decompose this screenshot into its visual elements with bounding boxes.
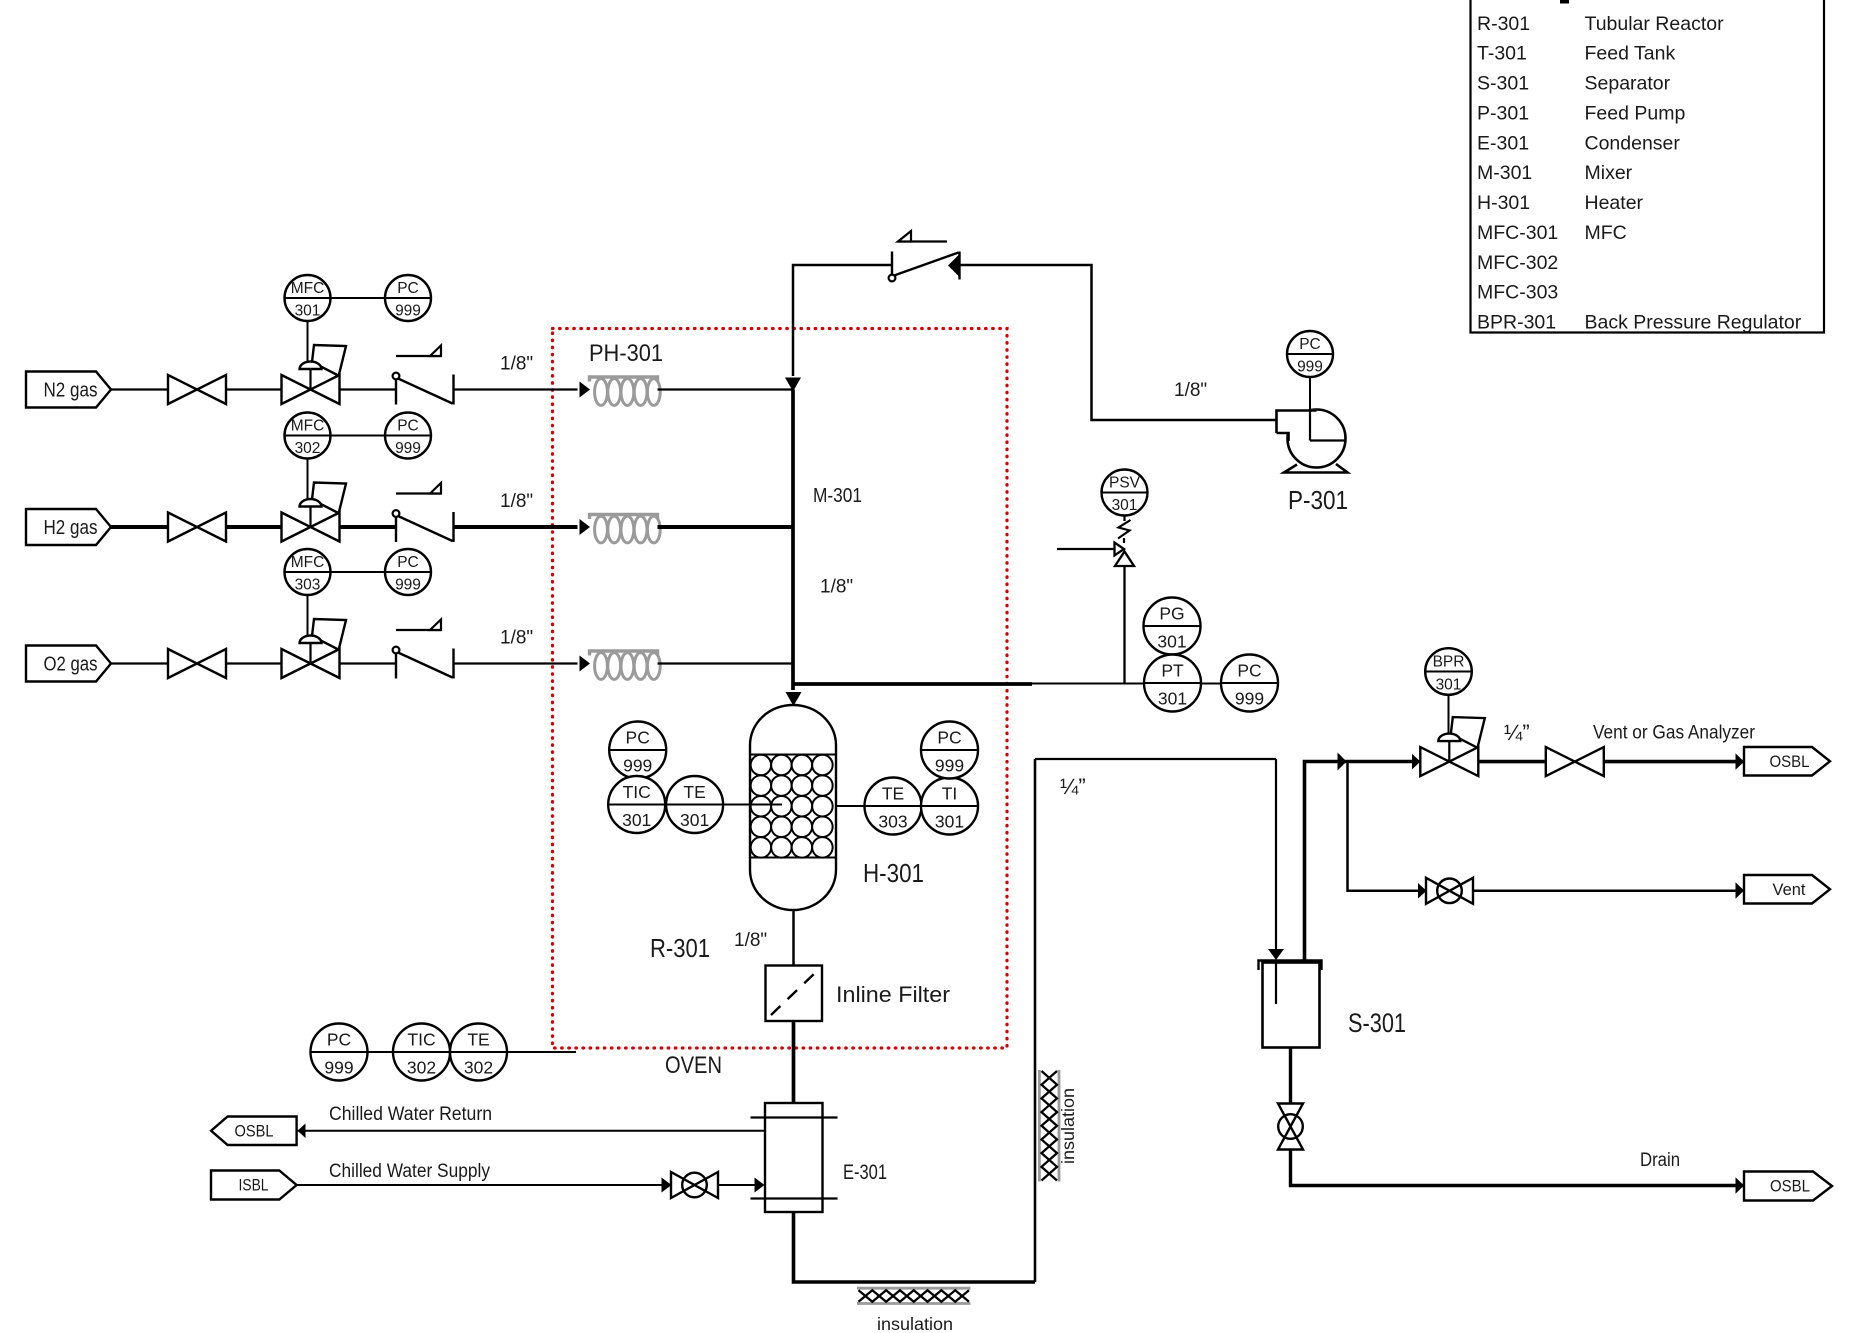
svg-text:H-301: H-301 [863, 858, 924, 888]
svg-text:Vent or Gas Analyzer: Vent or Gas Analyzer [1593, 723, 1756, 744]
svg-text:E-301: E-301 [843, 1161, 887, 1184]
wire recycle check valve to pump P-301, 1/8" [960, 265, 1277, 420]
PC-999 [385, 549, 431, 595]
check valve on recycle line [891, 252, 893, 280]
svg-text:301: 301 [295, 303, 321, 320]
svg-text:Separator: Separator [1585, 73, 1671, 95]
check valve flag on H2 line [396, 492, 441, 494]
PG-301 [1144, 598, 1201, 655]
condenser E-301 shell [765, 1103, 823, 1212]
PC-999-rl [609, 722, 666, 779]
svg-text:OVEN: OVEN [665, 1052, 722, 1079]
BPR-301 [1425, 648, 1472, 695]
svg-text:R-301: R-301 [1477, 13, 1530, 35]
svg-text:TE: TE [683, 782, 705, 802]
signal TE-303 probe line [836, 805, 865, 807]
flow arrow into reactor R-301 [786, 692, 802, 706]
svg-text:302: 302 [295, 440, 321, 457]
pump P-301 [1277, 409, 1348, 472]
wire H2 coil to mixer M-301 [658, 525, 794, 529]
svg-text:H2 gas: H2 gas [44, 517, 98, 539]
wire PT tap (thin) [1032, 683, 1278, 685]
check valve flag on O2 line [396, 629, 441, 631]
separator dip tube [1275, 962, 1277, 1004]
wire separator bottoms [1289, 1048, 1292, 1105]
back pressure regulator BPR-301 valve [1451, 717, 1485, 748]
control valve MFC-302 [312, 483, 346, 514]
oven boundary (red dotted box) [553, 329, 1008, 1049]
PC-999-oven [311, 1024, 368, 1081]
svg-text:ISBL: ISBL [239, 1177, 269, 1195]
manual valve on O2 line [168, 649, 197, 678]
flow arrow before BPR valve [1412, 754, 1421, 770]
flow arrow into N2 preheat coil [580, 382, 591, 398]
source flag O2 gas [26, 646, 111, 682]
wire into separator S-301 [1275, 759, 1277, 949]
PSV-301 [1102, 470, 1148, 516]
wire oven outlet (thick) to PT tap [793, 682, 1032, 686]
svg-text:OSBL: OSBL [1770, 1178, 1810, 1196]
svg-text:M-301: M-301 [1477, 162, 1532, 184]
wire N2 manual valve to control valve [226, 388, 282, 390]
source flag H2 gas [26, 509, 111, 545]
svg-text:TI: TI [942, 784, 958, 804]
svg-text:1/8": 1/8" [1174, 380, 1207, 401]
check valve flag on N2 line [396, 355, 441, 357]
svg-text:MFC-302: MFC-302 [1477, 252, 1558, 274]
manual valve on N2 line [168, 375, 197, 404]
signal MFC-303 to control valve [307, 595, 309, 636]
svg-text:Chilled Water Return: Chilled Water Return [329, 1104, 492, 1125]
svg-text:PC: PC [626, 728, 650, 748]
svg-text:Condenser: Condenser [1585, 132, 1681, 154]
svg-text:MFC: MFC [291, 417, 325, 434]
flow arrow into O2 preheat coil [580, 656, 591, 672]
svg-text:Inline Filter: Inline Filter [836, 982, 950, 1007]
svg-text:MFC: MFC [1585, 222, 1627, 244]
legend table box [1471, 0, 1825, 333]
svg-text:999: 999 [935, 756, 964, 776]
svg-text:H-301: H-301 [1477, 192, 1530, 214]
inline filter [766, 966, 823, 1022]
svg-text:Drain: Drain [1640, 1150, 1680, 1171]
wire O2 control valve to check valve [340, 662, 397, 664]
svg-text:Feed Tank: Feed Tank [1585, 43, 1676, 65]
flag ISBL (chilled water supply) [211, 1171, 297, 1200]
svg-text:¼”: ¼” [1060, 774, 1086, 799]
svg-text:P-301: P-301 [1288, 485, 1348, 515]
flow arrow down at N2 junction [785, 378, 801, 392]
flow arrow at OSBL (CWR) [298, 1123, 306, 1138]
svg-text:PC: PC [397, 554, 419, 571]
wire N2 flag to manual valve [111, 388, 168, 390]
PC-999 [385, 413, 431, 459]
wire relief valve inlet stub [1057, 548, 1115, 550]
preheater coil PH-301 (O2) [590, 651, 658, 656]
PC-999-pump [1287, 331, 1333, 377]
svg-text:301: 301 [1112, 497, 1138, 514]
wire relief valve to process line [1123, 566, 1125, 683]
svg-text:Tubular Reactor: Tubular Reactor [1585, 13, 1725, 35]
svg-text:Back Pressure Regulator: Back Pressure Regulator [1585, 312, 1802, 334]
flow arrow before vent valve [1418, 883, 1427, 899]
wire ISBL to CWS valve [297, 1184, 664, 1186]
wire O2 check valve to oven, 1/8" [454, 662, 578, 664]
svg-text:999: 999 [623, 756, 652, 776]
PT-301 [1144, 655, 1201, 712]
packing circles [751, 755, 833, 858]
svg-text:PC: PC [397, 417, 419, 434]
check valve on H2 line [395, 512, 397, 542]
signal MFC-301 to control valve [307, 321, 309, 362]
wire loop riser [1034, 759, 1037, 1282]
legend row T-301 [1477, 43, 1675, 65]
legend row E-301 [1477, 132, 1680, 154]
svg-text:M-301: M-301 [813, 485, 862, 507]
svg-text:R-301: R-301 [650, 933, 710, 963]
svg-text:999: 999 [1297, 359, 1323, 376]
signal PC-999 to pump [1309, 377, 1311, 412]
flow arrow at OSBL (drain) [1736, 1177, 1745, 1194]
source flag N2 gas [26, 372, 111, 408]
wire reactor to inline filter, 1/8" [792, 910, 795, 966]
flag OSBL (drain) [1744, 1172, 1832, 1201]
TE-303 [865, 778, 922, 835]
svg-text:301: 301 [935, 812, 964, 832]
TE-301 [666, 776, 723, 833]
condenser nozzle lines [751, 1116, 838, 1118]
svg-text:MFC: MFC [291, 554, 325, 571]
TI-301 [921, 778, 978, 835]
legend row MFC-302 [1477, 252, 1558, 274]
legend row M-301 [1477, 162, 1633, 184]
legend row P-301 [1477, 102, 1685, 124]
preheater coil PH-301 (H2) [590, 515, 658, 520]
svg-text:302: 302 [464, 1058, 493, 1078]
svg-text:999: 999 [1235, 689, 1264, 709]
svg-text:1/8": 1/8" [500, 628, 533, 649]
packed bed boundary lines [750, 754, 836, 756]
svg-text:301: 301 [622, 810, 651, 830]
wire mixer to recycle check valve [793, 265, 892, 376]
PC-999-pt [1221, 655, 1278, 712]
legend row MFC-303 [1477, 282, 1558, 304]
separator S-301 vessel [1259, 961, 1322, 1048]
svg-text:1/8": 1/8" [500, 354, 533, 375]
wire H2 control valve to check valve [340, 525, 397, 529]
svg-text:PT: PT [1161, 661, 1184, 681]
svg-text:T-301: T-301 [1477, 43, 1527, 65]
signal TE-301 probe into reactor [723, 804, 782, 806]
wire separator overhead riser to BPR valve [1305, 762, 1413, 961]
TIC-302 [393, 1024, 450, 1081]
legend header remnant [1560, 0, 1569, 4]
svg-text:PH-301: PH-301 [589, 340, 663, 367]
svg-text:TE: TE [467, 1030, 489, 1050]
svg-text:OSBL: OSBL [235, 1122, 274, 1140]
insulation bar (horizontal) [857, 1288, 971, 1303]
svg-text:BPR: BPR [1433, 653, 1465, 670]
flow arrow on recycle check valve [948, 254, 960, 277]
svg-text:Heater: Heater [1585, 192, 1644, 214]
check valve flag on recycle line [898, 240, 947, 242]
legend row R-301 [1477, 13, 1724, 35]
wire H2 manual valve to control valve [226, 525, 282, 529]
svg-text:PC: PC [1237, 661, 1261, 681]
wire chilled water return [297, 1130, 765, 1132]
wire N2 check valve to oven, 1/8" [454, 388, 578, 390]
svg-text:PC: PC [1299, 336, 1321, 353]
signal PC-999 to TIC-302 [368, 1051, 394, 1053]
svg-text:303: 303 [878, 812, 907, 832]
svg-text:1/8": 1/8" [734, 930, 767, 951]
svg-text:OSBL: OSBL [1770, 753, 1810, 771]
wire BPR valve to manual valve [1479, 760, 1546, 764]
manual valve on vent/analyzer line [1546, 747, 1575, 776]
wire O2 flag to manual valve [111, 662, 168, 664]
PC-999-rr [921, 722, 978, 779]
signal MFC-302 to PC-999 [331, 435, 386, 437]
preheater coil PH-301 (N2) [590, 377, 658, 382]
wire manual valve to OSBL [1604, 760, 1744, 764]
svg-text:S-301: S-301 [1348, 1008, 1406, 1038]
wire vent branch to valve [1348, 762, 1419, 891]
flag Vent [1744, 875, 1830, 904]
svg-text:999: 999 [395, 303, 421, 320]
svg-text:insulation: insulation [877, 1314, 953, 1333]
svg-text:MFC: MFC [291, 280, 325, 297]
legend row BPR-301 [1477, 312, 1802, 334]
drain valve (globe, vertical) [1278, 1104, 1303, 1150]
flow arrow into E-301 [755, 1178, 765, 1193]
MFC-301 [285, 275, 331, 321]
svg-text:Chilled Water Supply: Chilled Water Supply [329, 1161, 490, 1182]
signal TE-302 to oven [507, 1051, 576, 1053]
wire E-301 bottom loop [794, 1212, 1036, 1282]
wire inline filter to condenser E-301 [792, 1021, 796, 1103]
svg-text:1/8": 1/8" [820, 577, 853, 598]
wire O2 manual valve to control valve [226, 662, 282, 664]
globe valve on chilled water supply [671, 1172, 695, 1198]
TIC-301 [608, 776, 665, 833]
flow arrow on overhead line [1338, 753, 1347, 771]
svg-text:999: 999 [395, 440, 421, 457]
svg-text:302: 302 [407, 1058, 436, 1078]
svg-text:E-301: E-301 [1477, 132, 1529, 154]
wire N2 coil to mixer M-301 [658, 388, 794, 390]
check valve on O2 line [395, 649, 397, 679]
mixer line M-301 (vertical header) [791, 390, 795, 691]
svg-text:N2 gas: N2 gas [44, 379, 98, 401]
svg-text:TE: TE [882, 784, 904, 804]
wire CWS valve to E-301 [718, 1184, 757, 1186]
svg-text:PG: PG [1159, 604, 1184, 624]
svg-text:BPR-301: BPR-301 [1477, 312, 1556, 334]
signal MFC-303 to PC-999 [331, 571, 386, 573]
flow arrow before CWS valve [662, 1178, 672, 1193]
svg-text:PC: PC [397, 280, 419, 297]
svg-text:PC: PC [327, 1030, 351, 1050]
svg-text:301: 301 [680, 810, 709, 830]
wire O2 coil to mixer M-301 [658, 662, 794, 664]
svg-text:MFC-303: MFC-303 [1477, 282, 1558, 304]
svg-text:1/8": 1/8" [500, 491, 533, 512]
wire vent valve to Vent flag [1473, 890, 1744, 893]
flag OSBL (chilled water return) [211, 1117, 297, 1146]
legend row S-301 [1477, 73, 1671, 95]
svg-text:¼”: ¼” [1504, 720, 1530, 745]
globe valve on vent line [1426, 878, 1450, 904]
legend row H-301 [1477, 192, 1644, 214]
TE-302 [450, 1024, 507, 1081]
MFC-303 [285, 549, 331, 595]
svg-text:S-301: S-301 [1477, 73, 1529, 95]
svg-text:TIC: TIC [407, 1030, 435, 1050]
relief valve PSV (angle valve) [1115, 543, 1125, 556]
signal MFC-301 to PC-999 [331, 297, 386, 299]
legend row MFC-301 [1477, 222, 1627, 244]
MFC-302 [285, 413, 331, 459]
signal BPR-301 to valve [1448, 695, 1450, 734]
svg-text:301: 301 [1436, 676, 1462, 693]
svg-text:301: 301 [1158, 689, 1187, 709]
svg-text:303: 303 [295, 577, 321, 594]
manual valve on H2 line [168, 513, 197, 542]
svg-text:999: 999 [324, 1058, 353, 1078]
wire H2 check valve to oven, 1/8" [454, 525, 578, 529]
insulation bar (vertical) [1039, 1070, 1059, 1182]
flag OSBL (vent or gas analyzer) [1744, 747, 1830, 776]
signal MFC-302 to control valve [307, 459, 309, 500]
flow arrow into H2 preheat coil [580, 519, 591, 535]
wire H2 flag to manual valve [111, 525, 168, 529]
svg-text:O2 gas: O2 gas [44, 653, 98, 675]
control valve MFC-303 [312, 619, 346, 650]
svg-text:insulation: insulation [1058, 1088, 1078, 1164]
signal zigzag PSV-301 to relief valve [1123, 516, 1125, 522]
svg-text:Vent: Vent [1773, 881, 1806, 899]
svg-text:MFC-301: MFC-301 [1477, 222, 1558, 244]
svg-text:PC: PC [937, 728, 961, 748]
check valve on N2 line [395, 375, 397, 405]
flow arrow at OSBL (vent/analyzer) [1736, 753, 1745, 770]
flow arrow at Vent flag [1736, 882, 1745, 899]
wire N2 control valve to check valve [340, 388, 397, 390]
wire riser to separator, 1/4" [1035, 758, 1276, 760]
svg-text:301: 301 [1157, 632, 1186, 652]
svg-text:Feed Pump: Feed Pump [1585, 102, 1686, 124]
control valve MFC-301 [312, 345, 346, 376]
svg-text:TIC: TIC [623, 782, 651, 802]
reactor R-301 vessel [750, 705, 836, 910]
svg-text:Mixer: Mixer [1585, 162, 1633, 184]
svg-text:999: 999 [395, 577, 421, 594]
svg-text:PSV: PSV [1109, 474, 1141, 491]
svg-text:P-301: P-301 [1477, 102, 1529, 124]
wire drain to OSBL [1291, 1150, 1745, 1186]
PC-999 [385, 275, 431, 321]
